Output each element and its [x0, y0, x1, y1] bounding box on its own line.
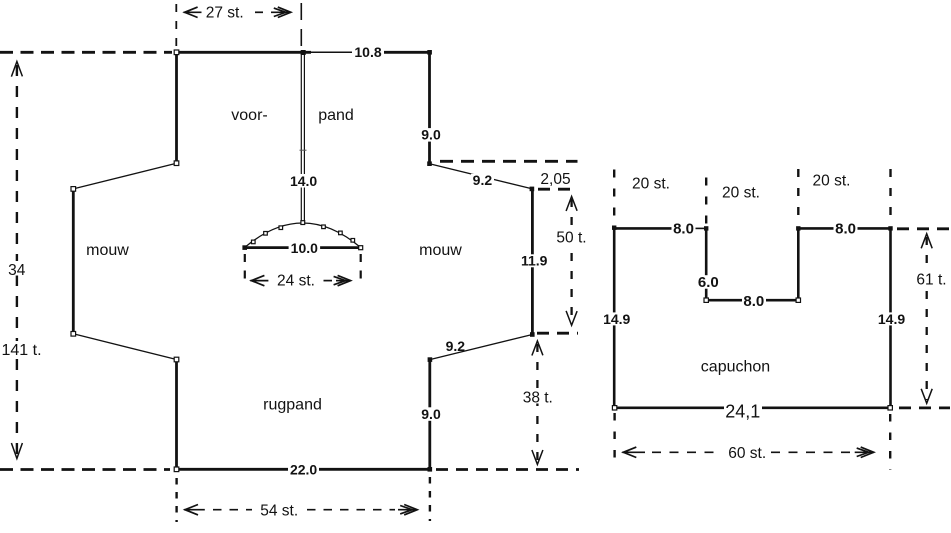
svg-text:9.0: 9.0 — [421, 127, 441, 143]
svg-text:61 t.: 61 t. — [916, 271, 946, 288]
svg-text:9.0: 9.0 — [421, 406, 441, 422]
svg-text:9.2: 9.2 — [473, 172, 493, 188]
svg-text:pand: pand — [318, 107, 354, 124]
svg-text:6.0: 6.0 — [698, 274, 719, 291]
svg-text:20 st.: 20 st. — [722, 185, 760, 202]
svg-text:10.8: 10.8 — [354, 44, 381, 60]
svg-text:54 st.: 54 st. — [260, 503, 298, 520]
svg-text:capuchon: capuchon — [701, 359, 770, 376]
svg-text:8.0: 8.0 — [673, 221, 694, 238]
svg-text:34: 34 — [8, 262, 26, 279]
svg-text:8.0: 8.0 — [743, 293, 764, 310]
svg-text:11.9: 11.9 — [521, 253, 548, 269]
svg-text:60 st.: 60 st. — [728, 445, 766, 462]
svg-text:24 st.: 24 st. — [277, 273, 315, 290]
svg-text:mouw: mouw — [86, 242, 129, 259]
svg-text:14.9: 14.9 — [878, 311, 905, 327]
svg-text:10.0: 10.0 — [291, 240, 318, 256]
svg-text:mouw: mouw — [419, 242, 462, 259]
svg-text:141 t.: 141 t. — [1, 342, 41, 359]
svg-text:20 st.: 20 st. — [632, 176, 670, 193]
svg-text:38 t.: 38 t. — [523, 389, 553, 406]
svg-text:2,05: 2,05 — [540, 171, 570, 188]
svg-text:27 st.: 27 st. — [206, 4, 244, 21]
svg-text:9.2: 9.2 — [446, 338, 466, 354]
svg-text:24,1: 24,1 — [725, 401, 760, 421]
svg-text:20 st.: 20 st. — [813, 172, 851, 189]
svg-text:rugpand: rugpand — [263, 397, 322, 414]
svg-text:8.0: 8.0 — [835, 221, 856, 238]
svg-text:14.9: 14.9 — [603, 311, 630, 327]
svg-text:voor-: voor- — [231, 107, 267, 124]
svg-text:50 t.: 50 t. — [556, 229, 586, 246]
svg-text:22.0: 22.0 — [290, 461, 317, 477]
svg-text:14.0: 14.0 — [290, 173, 317, 189]
